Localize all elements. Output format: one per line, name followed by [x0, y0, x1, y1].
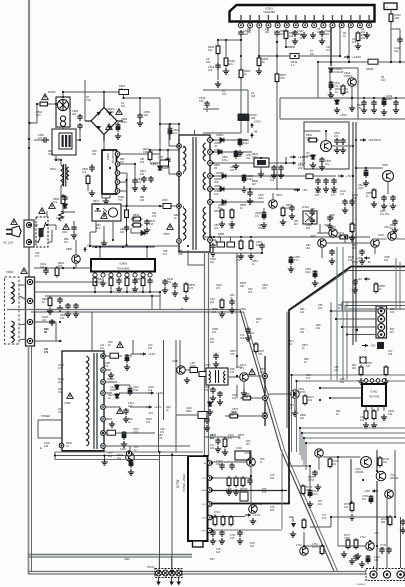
ground: [301, 32, 307, 38]
wire bus: [31, 281, 96, 283]
label: [158, 156, 164, 159]
resistor: [220, 298, 224, 310]
junction: [178, 145, 180, 147]
op-amp IC806 body: [91, 259, 155, 272]
label: [60, 314, 66, 320]
pin 4 of IC801: [115, 180, 120, 185]
label: [270, 176, 277, 182]
svg-text:103: 103: [288, 407, 293, 410]
svg-text:10u: 10u: [100, 347, 105, 350]
svg-text:471: 471: [306, 377, 311, 380]
svg-text:7V5: 7V5: [118, 199, 123, 202]
diode: [329, 67, 334, 73]
wire: [247, 121, 249, 134]
filter FL501: [303, 211, 317, 224]
wire: [269, 162, 290, 164]
junction: [260, 157, 262, 159]
warning triangle: [49, 203, 55, 209]
svg-text:470: 470: [230, 353, 235, 356]
label: [210, 298, 215, 304]
junction: [210, 236, 212, 238]
capacitor: [65, 303, 70, 310]
junction: [319, 399, 321, 401]
junction: [299, 427, 301, 429]
label: [270, 506, 275, 512]
junction: [249, 188, 251, 190]
svg-text:GND: GND: [124, 558, 130, 561]
label: [58, 378, 64, 384]
pin 7 of IC501: [293, 15, 298, 28]
plug XS801: [6, 226, 21, 237]
label: [248, 332, 254, 338]
label: [58, 364, 64, 370]
electrolytic capacitor: [234, 150, 239, 159]
svg-text:220: 220: [140, 199, 145, 202]
label: [251, 113, 258, 120]
label: [262, 284, 268, 290]
capacitor: [392, 219, 397, 226]
svg-text:104: 104: [352, 247, 357, 250]
label: [270, 474, 275, 480]
wire: [120, 190, 127, 192]
wire: [289, 465, 310, 467]
ground: [355, 553, 361, 559]
resistor: [227, 476, 231, 488]
svg-text:+B: +B: [254, 130, 258, 134]
wire: [19, 339, 26, 340]
wire: [218, 39, 241, 41]
label: [335, 87, 342, 94]
pin 3 of XS705: [397, 571, 404, 578]
label: [343, 88, 349, 94]
resistor: [213, 515, 217, 527]
wire: [396, 238, 405, 240]
wire: [240, 36, 242, 133]
pin of T803 secondary: [208, 187, 213, 192]
label: [140, 196, 145, 202]
junction: [212, 175, 214, 177]
svg-text:104: 104: [384, 259, 389, 262]
junction: [29, 281, 31, 283]
capacitor: [331, 178, 336, 185]
svg-text:100u: 100u: [386, 97, 392, 101]
svg-text:223: 223: [388, 353, 393, 356]
pin of IC402: [364, 378, 368, 384]
degauss coil box dashed: [5, 277, 20, 344]
label: [308, 396, 314, 402]
svg-text:VCC: VCC: [201, 478, 206, 480]
wire: [376, 481, 378, 571]
capacitor: [319, 30, 324, 37]
label: [246, 154, 252, 160]
wire: [323, 456, 361, 458]
wire bottom bus: [28, 571, 405, 573]
svg-text:104: 104: [40, 266, 45, 269]
wire: [127, 245, 180, 247]
voltage arrow: [83, 244, 93, 253]
wire inner box bottom 2: [28, 556, 192, 558]
label: [218, 233, 225, 239]
junction: [159, 123, 161, 125]
wire: [336, 310, 338, 380]
capacitor: [217, 391, 222, 398]
svg-text:+12V: +12V: [154, 405, 162, 409]
capacitor: [271, 165, 276, 172]
wire IC701 left 1: [159, 452, 161, 571]
junction: [363, 97, 365, 99]
label: [326, 46, 331, 52]
label: [306, 374, 311, 380]
svg-text:V707: V707: [296, 544, 302, 547]
pin of XS802: [27, 338, 32, 343]
ground: [359, 258, 365, 264]
svg-text:102: 102: [308, 399, 313, 402]
capacitor: [278, 165, 283, 172]
junction: [79, 139, 81, 141]
wire CRT drive line: [300, 427, 405, 429]
tab of IC701: [193, 541, 204, 547]
label: [174, 214, 179, 220]
capacitor: [238, 30, 243, 37]
label: [338, 304, 343, 310]
ground: [288, 266, 294, 272]
wire: [332, 145, 354, 147]
label: [230, 368, 235, 374]
svg-text:104: 104: [210, 261, 215, 264]
resistor: [254, 342, 258, 354]
wire: [55, 225, 57, 230]
junction: [212, 162, 214, 164]
junction: [264, 415, 266, 417]
label: [163, 250, 168, 256]
ground: [141, 185, 147, 191]
label: [173, 129, 180, 135]
label: [117, 454, 124, 460]
svg-text:103: 103: [204, 389, 209, 392]
label: [150, 163, 158, 166]
wire: [336, 318, 376, 320]
junction: [276, 55, 278, 57]
junction: [211, 529, 213, 531]
junction: [146, 246, 148, 248]
junction: [303, 545, 305, 547]
svg-text:+25V: +25V: [254, 120, 262, 124]
junction: [339, 55, 341, 57]
label: [244, 393, 250, 399]
voltage arrow: [250, 130, 257, 139]
ground: [271, 172, 277, 178]
crystal X402b: [360, 356, 366, 364]
ground: [315, 186, 321, 192]
svg-text:VD832: VD832: [214, 149, 222, 152]
wire CRT drive drop: [301, 433, 303, 460]
label: [44, 348, 49, 354]
ground: [184, 377, 190, 383]
capacitor: [245, 327, 250, 334]
ground: [162, 287, 168, 293]
wire: [225, 40, 227, 58]
junction: [365, 405, 367, 407]
pin VCC of IC701: [208, 476, 213, 481]
label: [276, 194, 282, 197]
zener VD504: [311, 154, 316, 160]
arrow lead of XS704: [177, 578, 180, 585]
label: [48, 90, 56, 94]
junction: [212, 151, 214, 153]
label: [140, 158, 145, 164]
wire: [213, 188, 301, 190]
label: [383, 458, 389, 464]
transistor V506: [329, 229, 338, 238]
junction: [330, 61, 332, 63]
wire CRT drive line: [302, 432, 405, 434]
pin of T803 secondary: [208, 200, 213, 205]
junction: [211, 515, 213, 517]
svg-text:470: 470: [146, 421, 151, 424]
junction: [362, 479, 364, 481]
wire: [230, 237, 232, 242]
svg-text:10u: 10u: [246, 157, 251, 160]
wire: [102, 197, 110, 199]
ground: [172, 290, 178, 296]
label: [380, 544, 386, 550]
junction: [330, 310, 332, 312]
label: [296, 544, 302, 547]
svg-text:103: 103: [120, 231, 125, 234]
capacitor: [124, 225, 129, 232]
pin 6 of IC501: [284, 15, 289, 28]
svg-text:472: 472: [216, 287, 221, 290]
wire: [150, 149, 179, 151]
label: [44, 328, 49, 334]
junction: [285, 46, 287, 48]
electrolytic capacitor: [382, 98, 387, 107]
svg-text:104: 104: [315, 194, 320, 197]
ground: [349, 235, 355, 241]
svg-text:VD834: VD834: [214, 185, 222, 188]
arrow lead of XS704: [170, 578, 173, 585]
svg-text:12V: 12V: [214, 193, 219, 196]
wire: [339, 28, 341, 57]
capacitor: [77, 114, 82, 121]
svg-text:102: 102: [286, 207, 291, 210]
wire: [92, 246, 155, 248]
label: [318, 500, 323, 506]
svg-text:103: 103: [199, 99, 204, 103]
svg-text:103: 103: [258, 353, 263, 356]
wire box left border 2: [31, 346, 33, 571]
wire: [179, 340, 181, 370]
junction: [28, 241, 30, 243]
ground: [319, 164, 325, 170]
capacitor C802: [42, 137, 49, 142]
wire pin of IC402: [371, 406, 373, 411]
wire: [186, 369, 191, 371]
svg-text:104: 104: [256, 244, 261, 247]
junction: [122, 97, 124, 99]
label: [231, 411, 237, 417]
svg-text:103: 103: [251, 95, 256, 98]
ground: [310, 32, 316, 38]
svg-text:4k7: 4k7: [212, 311, 217, 314]
pin 9 of IC501: [312, 15, 317, 28]
pin of XP801: [27, 240, 32, 245]
resistor: [302, 518, 306, 530]
diode: [140, 231, 146, 236]
wire: [106, 369, 112, 371]
wire: [37, 420, 39, 438]
capacitor: [397, 37, 402, 44]
junction: [125, 179, 127, 181]
filter X801: [384, 3, 397, 10]
warning triangle: [63, 224, 69, 230]
ground: [229, 221, 235, 227]
label: [334, 81, 341, 88]
resistor R455: [374, 282, 378, 294]
label: [366, 192, 372, 198]
junction: [281, 489, 283, 491]
wire: [55, 322, 57, 341]
junction: [352, 175, 354, 177]
label: [246, 440, 251, 446]
ground: [123, 416, 129, 422]
resistor: [350, 501, 354, 513]
svg-text:T803: T803: [163, 232, 170, 236]
wire: [169, 136, 171, 140]
ground: [108, 372, 114, 378]
wire: [285, 41, 287, 48]
resistor: [341, 84, 345, 96]
wire: [344, 306, 346, 311]
svg-text:103: 103: [58, 411, 63, 414]
ground: [250, 518, 256, 524]
svg-text:4148: 4148: [343, 91, 349, 94]
wire: [376, 450, 378, 471]
ground: [256, 68, 262, 74]
svg-text:104: 104: [148, 389, 153, 392]
electrolytic C455: [289, 256, 294, 265]
wire: [19, 284, 26, 286]
wire: [373, 238, 387, 240]
secondary winding 1 of T803: [203, 143, 205, 161]
wire: [400, 517, 402, 522]
ground: [223, 68, 229, 74]
wire: [101, 194, 103, 198]
svg-text:2k2: 2k2: [260, 371, 265, 374]
svg-text:47k: 47k: [53, 200, 58, 204]
label: [98, 278, 105, 284]
wire: [294, 398, 296, 410]
svg-text:C733: C733: [308, 479, 314, 482]
junction: [240, 39, 242, 41]
label: [317, 28, 322, 34]
wire: [217, 40, 219, 80]
capacitor: [210, 243, 215, 250]
wire: [348, 334, 376, 336]
junction: [352, 145, 354, 147]
wire: [280, 97, 337, 99]
svg-text:KA5Q0765: KA5Q0765: [111, 151, 114, 164]
svg-text:104: 104: [42, 319, 47, 322]
wire: [338, 545, 366, 547]
wire: [150, 162, 160, 164]
svg-text:V806: V806: [66, 247, 73, 251]
resistor: [224, 56, 228, 68]
label: [324, 224, 330, 227]
label: [258, 350, 264, 356]
wire: [48, 241, 52, 243]
label: [388, 410, 395, 416]
junction: [258, 55, 260, 57]
svg-text:470k: 470k: [48, 153, 54, 156]
label: [222, 156, 228, 162]
resistor: [239, 239, 243, 251]
connector XS705 body: [366, 569, 405, 581]
warning triangle: [117, 342, 123, 348]
label: [378, 234, 384, 237]
transistor V403: [291, 390, 300, 399]
pin of IC806: [148, 272, 152, 278]
svg-text:100u: 100u: [305, 271, 311, 274]
wire box edge: [279, 98, 281, 119]
ground: [241, 390, 247, 396]
wire: [60, 186, 62, 197]
wire: [129, 446, 131, 453]
capacitor: [73, 303, 78, 310]
wire: [160, 123, 179, 125]
junction: [250, 236, 252, 238]
wire: [63, 139, 80, 141]
wire: [120, 163, 135, 165]
wire: [169, 173, 179, 175]
junction: [264, 397, 266, 399]
junction: [29, 321, 31, 323]
label: [107, 378, 115, 381]
svg-text:472: 472: [158, 437, 163, 440]
capacitor: [71, 225, 76, 232]
electrolytic C406: [125, 354, 130, 363]
wire: [60, 160, 62, 165]
svg-text:472: 472: [228, 437, 233, 440]
ground: [309, 217, 315, 223]
electrolytic C456: [313, 270, 318, 279]
ground: [238, 253, 244, 259]
label: [236, 366, 242, 369]
svg-text:104: 104: [360, 419, 365, 422]
label: [316, 324, 321, 330]
junction: [60, 444, 62, 446]
label: [366, 67, 374, 71]
wire: [325, 131, 327, 141]
capacitor: [144, 219, 149, 226]
pin 1 of T803: [177, 144, 182, 149]
pin: [263, 374, 268, 379]
fuse R519: [290, 54, 299, 59]
label: [394, 46, 401, 53]
svg-text:XS802: XS802: [6, 271, 14, 274]
svg-text:102: 102: [144, 113, 149, 117]
transistor V504: [321, 141, 332, 152]
svg-text:472: 472: [58, 367, 63, 370]
label: [144, 110, 151, 117]
wire: [120, 153, 160, 155]
wire: [387, 182, 389, 195]
svg-text:2k2: 2k2: [361, 31, 366, 34]
wire: [386, 517, 388, 548]
label: [304, 358, 309, 364]
pin 3 of IC501: [257, 15, 262, 28]
pin 8 of T402: [101, 444, 106, 449]
